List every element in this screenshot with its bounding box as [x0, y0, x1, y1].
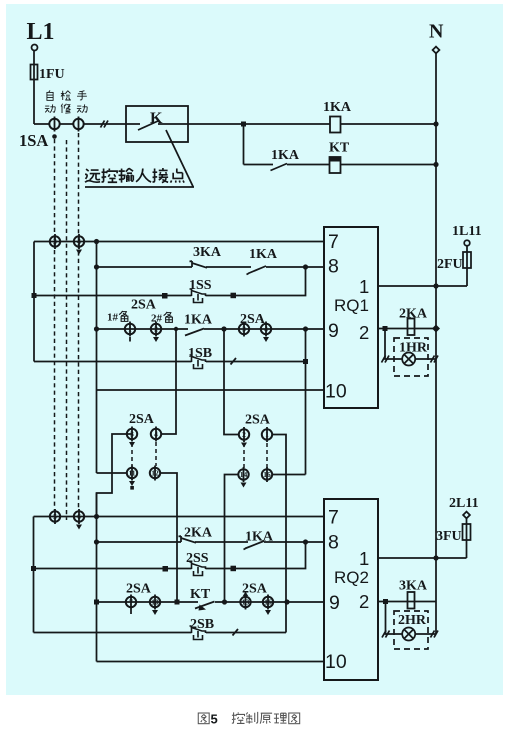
- junction row542/rail96: [94, 539, 99, 544]
- svg-text:3: 3: [242, 325, 246, 334]
- switch 2SA contact 1': [262, 427, 272, 442]
- switch 2SA contact 2': [239, 427, 249, 442]
- wire rail96 to 2SA11: [97, 472, 127, 474]
- row pin7 wire: [34, 241, 324, 243]
- svg-text:10: 10: [325, 651, 347, 673]
- stub 2SA16 to vertical x306: [273, 474, 306, 476]
- switch 1SA contact 6: [74, 509, 84, 524]
- contact circle numbers: [53, 237, 272, 607]
- svg-text:2: 2: [242, 430, 246, 439]
- switch 2SA contact 4: [261, 322, 271, 337]
- switch 2SA contact 3: [239, 322, 249, 337]
- arrow below contact 8: [152, 610, 158, 615]
- fuse 2FU: [463, 252, 471, 268]
- svg-text:2: 2: [359, 322, 369, 343]
- label shou-dong (manual) column: [77, 91, 87, 100]
- svg-text:2SA: 2SA: [245, 413, 271, 428]
- svg-text:K: K: [150, 110, 163, 127]
- switch 1SA contact a: [49, 117, 59, 132]
- svg-text:2SA: 2SA: [126, 582, 152, 597]
- arrow below contact 4b: [263, 337, 269, 342]
- branch to lamp 2HR: [386, 602, 437, 635]
- breaker slashes lamp1: [382, 356, 390, 363]
- wire 2SS to terminal: [206, 568, 234, 570]
- row pin9 wire: [97, 328, 325, 330]
- link dashes left group: [131, 443, 133, 466]
- row pin10 wire: [97, 389, 325, 391]
- wire 1SA to K box: [84, 123, 126, 125]
- svg-text:8: 8: [328, 256, 339, 278]
- svg-text:1KA: 1KA: [323, 100, 352, 115]
- node 1L11 terminal: [464, 240, 470, 246]
- switch 2SA contact 11: [127, 466, 137, 481]
- vertical x224 row9 to 2SA2: [224, 329, 238, 435]
- contact 1KA (NO, RQ2): [244, 541, 265, 550]
- svg-text:1FU: 1FU: [39, 67, 65, 82]
- svg-text:3: 3: [53, 237, 57, 246]
- slash on 1SB row: [231, 358, 237, 365]
- junction 1SS row / left rail: [32, 293, 37, 298]
- svg-text:3KA: 3KA: [399, 579, 428, 594]
- junction row8 right: [303, 264, 308, 269]
- svg-text:1SS: 1SS: [189, 278, 212, 293]
- arrow below contact 2: [153, 337, 159, 342]
- junction pin2 branch: [383, 326, 388, 331]
- switch 2SA contact 14: [238, 467, 248, 482]
- label yuan-kong-shu-ru-jie-dian (remote input contact): [85, 169, 100, 182]
- label jian-xiu (maintain) column: [61, 91, 71, 100]
- arrow below 14: [241, 483, 247, 488]
- dashed enclosure 2HR: [394, 611, 428, 649]
- inner rail lower (x96.5): [96, 493, 98, 662]
- arrow above contact 9: [243, 592, 248, 597]
- svg-text:4: 4: [154, 430, 158, 439]
- wire to 1SA: [34, 123, 50, 125]
- pin1 row RQ2: [378, 557, 467, 559]
- switch 1SA contact b: [73, 117, 83, 132]
- svg-text:RQ1: RQ1: [334, 296, 369, 315]
- svg-text:5: 5: [211, 712, 218, 727]
- svg-text:1: 1: [128, 325, 132, 334]
- coil 1KA: [330, 117, 341, 133]
- contact 2KA (NC): [179, 536, 197, 543]
- branch wire down from K output: [243, 124, 245, 165]
- terminal dot right of 2SS: [231, 566, 237, 572]
- svg-text:11: 11: [128, 469, 135, 478]
- label bei of 1#bei: [119, 311, 128, 322]
- dashed enclosure 1HR: [394, 338, 428, 376]
- node 2L11 terminal: [463, 512, 470, 519]
- left rail upper (x34): [33, 242, 35, 362]
- junction on N line: [433, 121, 438, 126]
- feed 1L11 vertical: [466, 246, 468, 286]
- coil KT: [330, 157, 341, 173]
- switch 2SA contact 8: [150, 595, 160, 610]
- inner rail (x96): [96, 242, 98, 474]
- contact KT (delayed): [195, 602, 215, 609]
- fuse 3FU: [463, 524, 471, 540]
- svg-text:1SA: 1SA: [19, 131, 48, 150]
- caption: figure 5 control schematic: [198, 712, 299, 724]
- terminal dot left of 2SS: [163, 566, 169, 572]
- node L1: [32, 45, 38, 51]
- fuse 1FU: [31, 65, 38, 80]
- pushbutton 2SS: [190, 562, 206, 576]
- svg-text:2SA: 2SA: [242, 582, 268, 597]
- svg-text:6: 6: [77, 512, 81, 521]
- svg-text:3: 3: [130, 430, 134, 439]
- junction row602 x177: [175, 600, 180, 605]
- lamp 2HR: [402, 628, 415, 641]
- svg-text:2SA: 2SA: [129, 412, 155, 427]
- svg-text:1L11: 1L11: [452, 224, 482, 239]
- junction row7/rail96: [94, 239, 99, 244]
- svg-text:KT: KT: [329, 141, 350, 156]
- junction pin1/N (RQ2): [433, 555, 438, 560]
- 2SB row wire: [34, 632, 287, 634]
- contact 1KA row9 (NO): [185, 329, 204, 336]
- breaker slashes lamp2: [382, 631, 390, 638]
- contact 1KA (NO): [247, 266, 267, 275]
- pushbutton 1SS: [190, 289, 206, 303]
- node N terminal: [433, 47, 440, 54]
- junction row516/rail96: [94, 514, 99, 519]
- svg-text:2SS: 2SS: [186, 551, 209, 566]
- svg-text:1: 1: [265, 430, 269, 439]
- coil 3KA: [408, 592, 415, 609]
- pushbutton 1SB: [190, 355, 206, 369]
- label 2HR: [397, 613, 426, 625]
- svg-text:3FU: 3FU: [436, 529, 462, 544]
- left rail lower (x33.5): [33, 517, 35, 633]
- moving contact dot 1SA: [52, 134, 57, 139]
- svg-text:L1: L1: [27, 19, 55, 45]
- switch 2SA contact 2: [151, 322, 161, 337]
- svg-text:8: 8: [328, 532, 339, 554]
- row pin8 (RQ2) wire: [97, 541, 325, 543]
- 2SS row wire: [34, 568, 192, 570]
- svg-text:1: 1: [359, 276, 369, 297]
- arrow below contact 10: [265, 610, 271, 615]
- junction pin1/N: [433, 283, 438, 288]
- svg-text:16: 16: [263, 470, 271, 479]
- switch 2SA contact 7: [126, 595, 136, 610]
- switch 2SA contact 12: [150, 466, 160, 481]
- arrow below contact 4: [76, 250, 82, 255]
- row pin7 (RQ2) wire: [34, 516, 325, 518]
- label bei of 2#bei: [164, 312, 173, 323]
- mechanical link dashed lines of 1SA/2SA column: [54, 139, 56, 511]
- wire 1SS to terminal: [206, 295, 234, 297]
- svg-text:2: 2: [359, 591, 369, 612]
- N vertical line: [435, 53, 437, 634]
- svg-text:2KA: 2KA: [184, 526, 213, 541]
- contact K inside box: [126, 121, 188, 130]
- junction row9/rail96: [94, 326, 99, 331]
- junction row602 x224: [222, 599, 227, 604]
- 1SB row wire: [34, 361, 306, 363]
- slash on 2SB row: [233, 629, 239, 636]
- svg-text:2L11: 2L11: [449, 496, 479, 511]
- stub 2SA1' to vertical x286: [273, 435, 287, 633]
- label 1HR: [398, 340, 426, 352]
- svg-text:16: 16: [264, 598, 272, 607]
- pin2 row RQ1: [378, 328, 436, 330]
- branch to lamp 1HR: [385, 329, 436, 360]
- wire direction chevrons: [101, 121, 109, 128]
- switch 1SA contact 3: [50, 234, 60, 249]
- switch 2SA contact 10: [263, 595, 273, 610]
- junction row542 right: [303, 539, 308, 544]
- svg-text:10: 10: [325, 381, 347, 403]
- wire K box to coil 1KA: [188, 123, 330, 125]
- svg-text:5: 5: [53, 512, 57, 521]
- pushbutton 2SB: [190, 626, 206, 640]
- arrow below contact 6: [76, 525, 82, 530]
- svg-text:2: 2: [154, 325, 158, 334]
- svg-text:3KA: 3KA: [193, 245, 222, 260]
- arrow below 3': [129, 442, 135, 447]
- vertical x306 row9 to 2SA16: [305, 329, 307, 475]
- dash below contact 7: [130, 610, 132, 615]
- junction row602 x287: [284, 599, 289, 604]
- svg-text:1KA: 1KA: [245, 530, 274, 545]
- junction pin2 branch (RQ2): [383, 599, 388, 604]
- switch 2SA contact 16: [262, 467, 272, 482]
- wire L1 to fuse: [33, 51, 35, 125]
- wire between 1SA contacts: [60, 123, 74, 125]
- svg-text:14: 14: [240, 470, 248, 479]
- switch 1SA contact 5: [50, 509, 60, 524]
- svg-text:7: 7: [328, 231, 339, 253]
- svg-text:7: 7: [328, 507, 339, 529]
- switch 2SA contact 9: [240, 595, 250, 610]
- leader line to label: [85, 130, 194, 187]
- branch to 2SS row: [233, 542, 306, 569]
- junction 2SS row / left rail: [31, 566, 36, 571]
- svg-text:9: 9: [328, 320, 339, 342]
- svg-text:7: 7: [129, 598, 133, 607]
- stub 2SA12 to vertical x177: [161, 473, 178, 602]
- svg-text:N: N: [429, 21, 444, 43]
- stub to 2SA contact 3': [97, 434, 133, 517]
- arrow below 11: [129, 481, 135, 486]
- svg-text:RQ2: RQ2: [334, 568, 369, 587]
- link dashes right group: [243, 443, 245, 468]
- switch 1SA contact 4: [74, 234, 84, 249]
- svg-text:1KA: 1KA: [249, 247, 278, 262]
- row pin9 (RQ2) wire: [97, 601, 325, 603]
- arrow below 2': [241, 443, 247, 448]
- svg-text:1: 1: [359, 548, 369, 569]
- svg-text:4: 4: [264, 325, 268, 334]
- branch to 1SS row: [233, 267, 306, 296]
- switch 2SA contact 1: [125, 322, 135, 337]
- svg-text:2KA: 2KA: [399, 307, 428, 322]
- pin1 row RQ1: [378, 285, 467, 287]
- svg-text:1KA: 1KA: [271, 148, 300, 163]
- label zi-dong (auto) column: [47, 90, 53, 100]
- junction pin2/N diamond: [432, 325, 440, 333]
- lamp 1HR: [402, 353, 415, 366]
- svg-text:KT: KT: [190, 587, 211, 602]
- junction row602/rail96: [94, 600, 99, 605]
- row pin10 (RQ2) wire: [97, 661, 325, 663]
- svg-text:2HR: 2HR: [398, 613, 427, 628]
- svg-text:12: 12: [151, 469, 159, 478]
- svg-text:1#: 1#: [107, 312, 119, 324]
- feed 2L11 vertical: [466, 518, 468, 558]
- svg-text:2SB: 2SB: [190, 617, 214, 632]
- junction row9 right: [303, 326, 308, 331]
- coil 2KA: [408, 319, 415, 336]
- svg-text:2#: 2#: [151, 313, 163, 325]
- wire coil KT to N: [341, 164, 437, 166]
- vertical x176 row9 to 2SA4: [162, 329, 176, 434]
- contact 1KA (NO): [271, 164, 330, 171]
- svg-text:1SB: 1SB: [188, 346, 212, 361]
- switch 2SA contact 3': [127, 427, 137, 442]
- junction row9 x176: [174, 327, 178, 331]
- wire to contact 1KA: [244, 164, 274, 166]
- switch 2SA contact 4': [151, 427, 161, 442]
- junction on N line: [433, 162, 438, 167]
- remote input contact box K: [126, 106, 188, 142]
- svg-text:10: 10: [151, 598, 159, 607]
- stub 2SA14 to vertical x224: [225, 475, 239, 603]
- svg-text:4: 4: [77, 237, 81, 246]
- row pin8 wire: [97, 266, 325, 268]
- terminal dot right of 1SS: [231, 293, 237, 299]
- wire coil 1KA to N: [341, 123, 437, 125]
- terminal dot left of 1SS: [162, 293, 168, 299]
- 1SS row wire: [34, 295, 192, 297]
- svg-text:2SA: 2SA: [131, 298, 157, 313]
- svg-text:13: 13: [242, 598, 250, 607]
- block RQ2: [324, 499, 378, 680]
- svg-text:1KA: 1KA: [184, 313, 213, 328]
- svg-text:1HR: 1HR: [399, 341, 428, 356]
- junction row8/rail96: [94, 264, 99, 269]
- junction node at 243: [241, 122, 246, 127]
- contact 3KA (NC): [190, 261, 208, 268]
- CJK labels drawn as strokes: [45, 90, 87, 113]
- svg-text:2FU: 2FU: [437, 257, 463, 272]
- junction row9 x224: [221, 326, 226, 331]
- svg-text:9: 9: [329, 592, 340, 614]
- junction 1SB right: [303, 359, 308, 364]
- pin2 row RQ2: [378, 601, 436, 603]
- block RQ1: [324, 227, 378, 408]
